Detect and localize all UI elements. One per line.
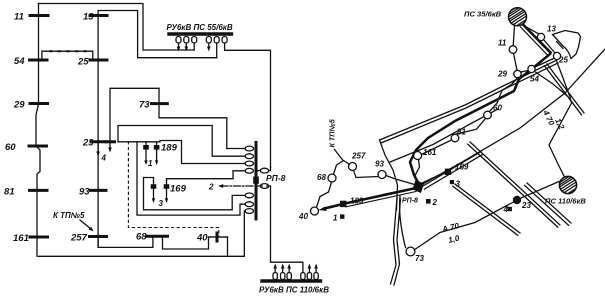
svg-text:23: 23 [82,138,94,149]
wire 68-257 [334,161,350,175]
node 93 tick [91,189,107,192]
svg-text:11: 11 [498,39,507,48]
PS55 feeder4 stub arrow [208,43,210,49]
substation PS35 circle hatched [505,0,538,37]
wire RP8 feeder3 from 189 [160,141,245,164]
node 189 left [143,145,149,150]
wire RP8 feeder5 loop 169 left [144,178,246,210]
node circle 161 [414,152,422,160]
road R3b pair [455,184,520,233]
node circle 73 [406,247,415,256]
wire PS35 to 11 [513,26,514,46]
svg-text:РП-8: РП-8 [266,173,286,183]
node circle 257 [349,163,357,171]
node circle 25 [553,52,560,59]
node 23 black [513,196,521,204]
node 54 tick [30,59,48,62]
RP8 feeder ovals upper left [245,146,253,213]
svg-text:68: 68 [317,173,326,182]
node 73 tick [152,102,168,105]
svg-text:93: 93 [375,160,384,169]
node 169 right [164,184,170,189]
svg-text:13: 13 [83,12,94,23]
wire 23 to PS110 [521,182,559,199]
wire RP8 feeder4 to 169 [167,171,246,181]
wire 13-25 [544,40,556,54]
wire RP8 feeder1 from 73 [227,148,245,150]
svg-text:11: 11 [14,12,24,23]
svg-text:81: 81 [4,187,15,198]
node 81 tick [30,189,48,192]
PS55 switch symbols [176,37,227,44]
svg-text:3: 3 [159,199,164,208]
marker 2 square [426,199,431,204]
marker 1 square [340,214,344,218]
road R6 pair [527,183,571,223]
node circle 29 [514,70,521,77]
road R3a pair [423,152,481,187]
wire 40-68 zigzag [317,182,332,207]
node circle 81 [451,134,459,142]
PS55 feeder1 stub arrow [178,43,180,49]
RP-8 busbar [255,143,258,220]
wire chain to 60 [490,91,503,112]
svg-text:73: 73 [139,100,150,111]
bold corridor to RP8 [410,54,550,186]
wire RP8 incoming oval right top [260,168,268,173]
node 25 tick [90,59,107,62]
node 161 tick [30,236,48,239]
RP8 section switch black [253,177,259,184]
svg-text:54: 54 [14,56,25,67]
svg-text:60: 60 [493,104,502,113]
wire dotted bottom h [128,142,218,237]
wire 23 second stub arrow [109,142,111,150]
svg-text:93: 93 [79,187,90,198]
wire 189 rail [118,141,160,143]
node 23 tick [91,140,106,143]
road R4 pair down [391,198,398,284]
wire chain 29 down corridor [502,78,518,91]
PS55 feeder2 stub arrow [185,43,187,49]
PS55 feeder3 stub [193,43,195,50]
svg-text:189: 189 [350,197,364,206]
svg-text:257: 257 [351,152,366,161]
svg-text:ПС 35/6кВ: ПС 35/6кВ [464,10,502,19]
wire 2 arrow feeder [221,185,255,187]
bold RP8 to 189 to 40 [325,188,417,209]
wire dotted tie 54-25 [42,51,93,59]
PS55 feeder6 wire to RP-8 [225,43,271,168]
road R1 pair [380,60,558,140]
node 68 bar [147,235,168,238]
substation PS110 circle hatched [556,164,589,205]
wire RP8 feeder2 from box top [118,126,245,157]
svg-text:29: 29 [13,100,25,111]
svg-text:РУ6кВ ПС 110/6кВ: РУ6кВ ПС 110/6кВ [259,286,329,295]
wire knot to 73 [400,196,406,248]
wire 257 bottom row to 68 [98,236,153,247]
wire 25-54 thin [535,58,555,67]
node 169 left [151,184,157,189]
svg-text:257: 257 [70,233,88,244]
long line L1 [421,49,605,185]
svg-text:3: 3 [456,180,461,189]
road inner block edge [390,109,498,162]
wire 93 to knot [386,176,416,186]
wire 73 vertical [159,88,227,148]
boundary pentagon [553,31,581,59]
knot blob RP8 [413,180,425,193]
node 189 right [154,145,160,150]
wire left column vertical [36,4,40,257]
node 257 tick [90,235,107,238]
PS110 feeder up arrows [274,266,276,273]
wire 73 to 23 [415,202,514,250]
svg-text:4: 4 [101,154,107,163]
node circle 13 [537,33,544,40]
node circle 60 [484,111,492,119]
wire 13 top loop to PS55 feeder5 [98,11,217,58]
svg-text:161: 161 [423,148,437,157]
road SE extension pair [547,64,584,113]
wire K TP5 arrow [80,220,92,230]
svg-text:81: 81 [457,128,466,137]
node circle 11 [509,46,517,54]
marker 4 square [508,207,512,211]
busbar PS55 [169,32,232,35]
PS110 switch symbols [273,273,318,280]
svg-text:189: 189 [161,143,178,154]
wire 161 to knot [415,160,420,185]
marker 3 square [450,180,454,184]
node 29 tick [30,102,48,105]
wire RP8 to PS110 [258,186,303,273]
svg-text:23: 23 [521,201,531,210]
svg-text:1: 1 [148,159,153,168]
node 40 tick [216,233,219,241]
svg-text:РУ6кВ ПС 55/6кВ: РУ6кВ ПС 55/6кВ [167,23,233,32]
svg-text:169: 169 [455,163,469,172]
svg-text:60: 60 [5,142,16,153]
node 169 square [445,169,451,175]
node 23 second tick [106,140,115,143]
wire RP8 feeder6 loop 189 rail [137,142,245,215]
road P1 pair [470,142,560,225]
node 189 square [340,201,346,207]
svg-text:25: 25 [77,57,89,68]
node circle 54 [528,65,535,72]
node circle 93 [378,171,386,179]
svg-text:К ТП№5: К ТП№5 [53,211,85,220]
node 13 tick [90,14,107,17]
node circle 68 [328,174,336,182]
svg-text:25: 25 [558,56,568,65]
node circle 40 [311,207,319,215]
wire 257-93 [354,170,379,177]
wire chain 60-81 [454,118,486,137]
svg-text:40: 40 [298,212,308,221]
bold trunk PS35 to 25 [523,25,551,53]
wire 73 branch [110,88,159,142]
arrow into 40 [319,207,327,211]
wire chain 81-161 [422,141,451,155]
svg-text:К ТП№5: К ТП№5 [328,118,337,147]
svg-text:2: 2 [208,183,214,192]
svg-text:54: 54 [530,75,539,84]
wire RP8 feeder7 bottom ring [39,211,246,256]
svg-text:1: 1 [333,214,338,223]
svg-text:73: 73 [415,254,424,263]
wire top loop to PS55 feeder3 [39,4,195,51]
busbar PS110 [262,279,321,282]
wire K TPN5 map [335,150,344,161]
RP8 right outgoing oval [260,184,268,189]
svg-text:40: 40 [196,233,208,244]
svg-text:29: 29 [497,70,507,79]
svg-text:ПС 110/6кВ: ПС 110/6кВ [545,197,586,206]
wire 23 stub arrow [97,142,99,154]
wire tie line 470/1,2 [549,60,572,177]
road left boundary down [380,140,398,210]
svg-text:13: 13 [547,25,556,34]
svg-text:РП-8: РП-8 [402,198,418,205]
node 11 tick [30,14,48,17]
wire 29-54 [521,71,528,73]
wire PS35 to 13 [524,26,540,35]
wire 13-25 column [97,11,99,248]
node 60 tick [29,145,47,148]
wire 11-29 [514,53,518,70]
svg-text:2: 2 [432,198,438,207]
svg-text:68: 68 [136,232,147,243]
svg-text:4: 4 [503,205,509,214]
PS55 feeder5 stub [216,43,218,58]
wire knot to 169 [421,173,445,184]
wire 68 to 40 [163,236,228,256]
svg-text:169: 169 [170,184,187,195]
svg-text:161: 161 [13,233,29,244]
